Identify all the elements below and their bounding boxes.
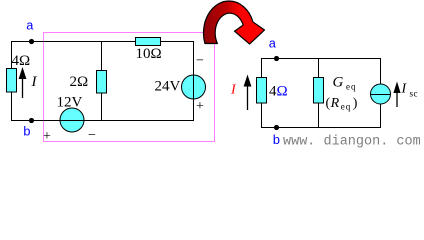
svg-text:+: + (196, 99, 204, 114)
svg-text:4Ω: 4Ω (269, 84, 288, 100)
svg-text:−: − (196, 54, 204, 69)
svg-text:12V: 12V (57, 95, 83, 111)
svg-text:10Ω: 10Ω (136, 46, 162, 62)
svg-text:24V: 24V (155, 79, 181, 95)
svg-text:sc: sc (410, 89, 419, 99)
svg-text:2Ω: 2Ω (70, 74, 89, 90)
svg-text:eq: eq (346, 82, 357, 92)
svg-text:G: G (333, 75, 344, 91)
svg-text:4Ω: 4Ω (12, 53, 31, 69)
svg-text:www. diangon. com: www. diangon. com (283, 135, 421, 150)
svg-text:+: + (43, 129, 51, 144)
svg-text:b: b (273, 133, 281, 148)
svg-text:a: a (26, 19, 34, 34)
svg-text:−: − (88, 128, 96, 143)
svg-text:I: I (31, 74, 38, 90)
svg-text:a: a (269, 37, 277, 52)
svg-text:b: b (23, 125, 31, 140)
